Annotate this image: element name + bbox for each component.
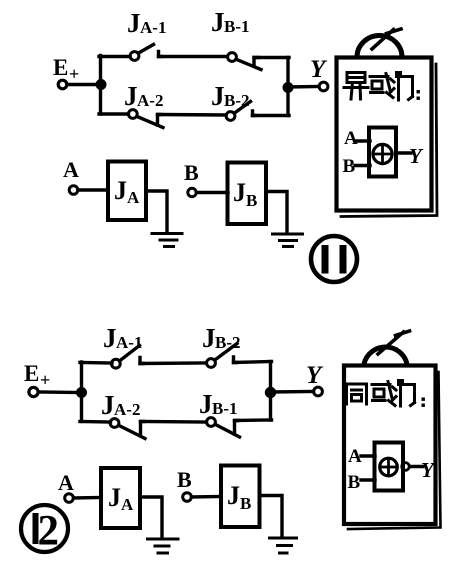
svg-text:A-2: A-2: [137, 91, 163, 110]
XNOR symbol circle-plus: [380, 458, 398, 476]
wire bottom branch left: [99, 112, 129, 115]
node Y label (circuit 12): [306, 362, 324, 389]
wire XNOR box to Y: [410, 465, 424, 468]
wire B into XNOR box: [361, 478, 375, 481]
contact JA-1 normally-open (circuit 11): [130, 45, 161, 61]
char 门: [397, 73, 413, 101]
relay coil JB (circuit 12): [221, 466, 260, 528]
contact JB-1 normally-closed (circuit 11): [228, 53, 261, 70]
wire E+ to junction (circuit 12): [39, 390, 81, 394]
contact JA-2 normally-closed (circuit 11): [128, 110, 163, 128]
node Y label (XNOR tag): [421, 458, 436, 482]
relay coil JB (circuit 11): [228, 163, 267, 225]
svg-text:J: J: [101, 390, 115, 420]
label JB-1 (circuit 11): [211, 7, 250, 37]
node B label (circuit 12): [177, 467, 192, 492]
node B label (circuit 11): [184, 160, 199, 185]
terminal B (circuit 12): [183, 493, 192, 502]
junction dot left (circuit 12): [77, 388, 87, 398]
wire A into XNOR box: [361, 454, 375, 457]
svg-text:B: B: [177, 467, 192, 492]
svg-text:B: B: [348, 472, 361, 493]
wire right rail (circuit 11): [286, 58, 289, 116]
label JA-1 (circuit 12): [103, 323, 142, 353]
node Y label (XOR tag): [409, 144, 424, 168]
svg-text:E: E: [53, 55, 68, 80]
wire top branch left (circuit 12): [80, 361, 112, 365]
svg-text:J: J: [211, 81, 225, 111]
label JB-1 (circuit 12): [199, 389, 238, 419]
wire junction to Y (circuit 12): [271, 390, 314, 394]
node E+ label (circuit 11): [53, 55, 79, 84]
wire bottom branch right (circuit 12): [235, 418, 272, 422]
wire A to coil JA (circuit 12): [74, 496, 102, 500]
wire XOR box to Y: [396, 151, 411, 154]
node Y label (circuit 11): [310, 56, 328, 83]
wire coil JB to ground (circuit 12): [260, 496, 283, 537]
relay coil JA (circuit 11): [108, 162, 146, 221]
wire top branch middle: [159, 55, 228, 58]
wire top branch left: [99, 55, 130, 58]
svg-text:A: A: [58, 470, 74, 495]
wire coil JA to ground: [146, 191, 167, 232]
svg-text:J: J: [124, 81, 138, 111]
gate symbol input A (XOR tag): [344, 128, 358, 149]
wire bottom branch middle (circuit 12): [141, 420, 207, 424]
gate symbol input B (XOR tag): [343, 156, 356, 177]
tag shadow edge (XNOR): [348, 372, 441, 529]
svg-text:J: J: [127, 8, 141, 38]
tag card body (XOR): [337, 58, 432, 211]
svg-text:J: J: [103, 323, 117, 353]
svg-text:A: A: [63, 157, 79, 182]
wire right rail (circuit 12): [269, 362, 272, 421]
tag card body (XNOR): [344, 366, 436, 525]
text 同或门 (XNOR gate label), char 同: [347, 384, 367, 404]
svg-text:B-1: B-1: [212, 399, 238, 418]
gate box U1 (XOR): [369, 128, 396, 177]
contact JA-2 normally-closed (circuit 12): [110, 419, 145, 439]
contact JB-1 normally-closed (circuit 12): [207, 418, 240, 437]
terminal A (circuit 11): [69, 186, 78, 195]
wire left rail (circuit 12): [80, 362, 83, 422]
figure number 11 badge: [311, 236, 357, 282]
wire B into XOR box: [355, 164, 370, 167]
gate box U2 (XNOR): [375, 443, 404, 491]
text 异或门 (XOR gate label), char 异: [344, 73, 368, 100]
XOR symbol circle-plus: [373, 144, 392, 163]
subscript mark after 门 (XOR tag): [417, 90, 420, 100]
label JA-1 (circuit 11): [127, 8, 166, 38]
gate symbol input B (XNOR tag): [348, 472, 361, 493]
tag string loop (XNOR): [364, 347, 407, 364]
label JB-2 (circuit 11): [211, 81, 250, 111]
svg-text:J: J: [114, 176, 127, 205]
terminal Y (circuit 11): [319, 82, 328, 91]
relay coil JA (circuit 12): [101, 468, 140, 528]
wire A to coil JA: [78, 188, 108, 191]
terminal E+ (circuit 12): [29, 387, 38, 396]
svg-text:J: J: [227, 481, 240, 510]
svg-text:2: 2: [38, 508, 60, 555]
wire coil JA to ground (circuit 12): [140, 497, 162, 537]
wire B to coil JB: [197, 191, 229, 194]
wire A into XOR box: [357, 139, 370, 142]
svg-text:B-1: B-1: [224, 17, 250, 36]
wire bottom branch left (circuit 12): [80, 420, 111, 424]
terminal Y (circuit 12): [314, 387, 323, 396]
svg-text:J: J: [211, 7, 225, 37]
svg-text:J: J: [199, 389, 213, 419]
svg-text:A: A: [121, 495, 134, 514]
inversion bubble (XNOR output): [402, 463, 410, 471]
svg-text:J: J: [233, 178, 246, 207]
svg-text:+: +: [69, 64, 79, 84]
tag shadow edge (XOR): [341, 64, 437, 217]
wire top branch right: [254, 56, 289, 59]
svg-text:A-1: A-1: [116, 333, 142, 352]
char 或: [370, 74, 394, 98]
svg-text:A-1: A-1: [140, 18, 166, 37]
wire B to coil JB (circuit 12): [192, 495, 222, 499]
svg-text:A: A: [344, 128, 358, 149]
wire bottom branch middle: [158, 113, 227, 117]
figure number 12 badge: [21, 505, 68, 555]
label JA-2 (circuit 12): [101, 390, 140, 420]
wire E+ to junction: [68, 83, 100, 86]
contact JA-1 normally-open (circuit 12): [111, 346, 143, 369]
wire coil JB to ground: [266, 192, 287, 233]
svg-text:A: A: [127, 188, 140, 207]
junction dot right (circuit 11): [283, 83, 293, 93]
ground (JA, circuit 12): [148, 539, 179, 553]
ground (JB, circuit 12): [270, 538, 297, 553]
tag string end (XOR): [372, 29, 401, 49]
tag string end (XNOR): [378, 331, 410, 354]
subscript mark after 门 (XNOR tag): [422, 398, 425, 407]
svg-text:B: B: [240, 494, 251, 513]
svg-text:B-2: B-2: [224, 91, 250, 110]
label JB-2 (circuit 12): [202, 323, 241, 353]
terminal B (circuit 11): [188, 188, 196, 196]
svg-text:A-2: A-2: [114, 400, 140, 419]
wire bottom branch right: [253, 114, 290, 117]
svg-text:Y: Y: [409, 144, 424, 168]
gate symbol input A (XNOR tag): [348, 446, 362, 467]
char 门: [399, 381, 415, 407]
node E+ label (circuit 12): [24, 361, 50, 390]
terminal A (circuit 12): [65, 494, 74, 503]
wire top branch right (circuit 12): [234, 362, 272, 363]
node A label (circuit 12): [58, 470, 74, 495]
tag string loop (XOR): [357, 36, 402, 58]
svg-text:B: B: [184, 160, 199, 185]
char 或: [372, 382, 396, 406]
ground (JA, circuit 11): [152, 234, 182, 247]
svg-text:+: +: [40, 370, 50, 390]
wire top branch middle (circuit 12): [140, 361, 206, 365]
svg-text:Y: Y: [421, 458, 436, 482]
svg-text:B: B: [246, 191, 257, 210]
svg-text:J: J: [202, 323, 216, 353]
junction dot right (circuit 12): [265, 387, 275, 397]
terminal E+ (circuit 11): [58, 80, 67, 89]
contact JB-2 normally-open (circuit 11): [226, 102, 255, 121]
svg-text:E: E: [24, 361, 39, 386]
wire left rail (circuit 11): [99, 56, 102, 115]
node A label (circuit 11): [63, 157, 79, 182]
svg-text:J: J: [108, 483, 121, 512]
contact JB-2 normally-open (circuit 12): [207, 344, 237, 368]
junction dot left (circuit 11): [96, 80, 106, 90]
wire junction to Y: [288, 85, 319, 89]
ground (JB, circuit 11): [273, 234, 303, 247]
label JA-2 (circuit 11): [124, 81, 163, 111]
